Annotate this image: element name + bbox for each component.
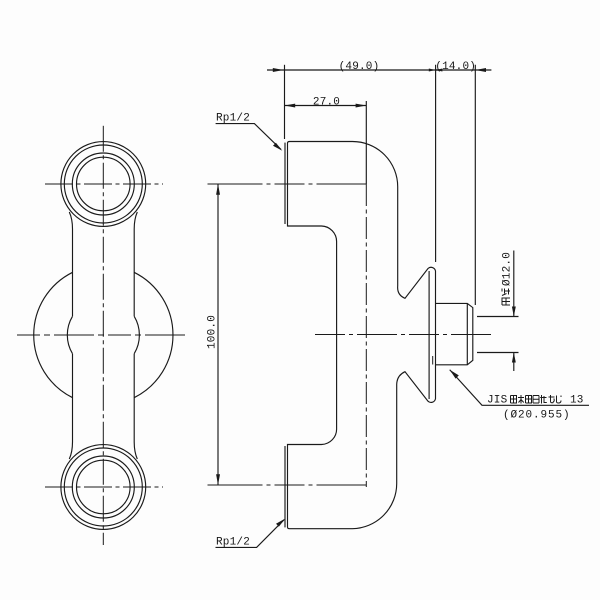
dim 100.0 line — [217, 184, 219, 485]
dim 49 left extension line — [284, 65, 286, 139]
dim 14.0 line — [436, 69, 492, 71]
dim o12 upper line — [513, 251, 515, 317]
dim 27 right extension line — [365, 101, 367, 184]
svg-text:100.0: 100.0 — [207, 315, 219, 349]
arrow o12 bottom (pointing up) — [512, 353, 516, 363]
left view top socket circle 3 — [72, 153, 134, 215]
svg-text:Rp1/2: Rp1/2 — [216, 537, 250, 549]
arrow leader rp12 bottom — [276, 519, 285, 527]
right view bottom socket axis centerline — [208, 484, 367, 486]
right view bottom socket face line — [284, 446, 286, 527]
right view top socket axis centerline — [208, 183, 367, 185]
left view bottom socket horizontal centerline — [45, 486, 163, 488]
left view tube left wall — [69, 212, 72, 459]
svg-text:27.0: 27.0 — [313, 96, 340, 108]
flange small center dash — [432, 356, 434, 365]
dim o12 lower line — [513, 353, 515, 372]
nipple chamfer line — [466, 303, 468, 364]
arrow leader jis — [450, 370, 459, 379]
leader JIS thread — [450, 370, 589, 406]
svg-text:(49.0): (49.0) — [339, 61, 380, 73]
left view middle horizontal centerline — [17, 334, 187, 336]
arrow leader rp12 top — [273, 143, 282, 151]
dim 27.0 line — [285, 105, 367, 107]
pseudo CJK glyphs: kyusui-sen toritsuke neji — [511, 395, 562, 404]
right view flange face inner line — [428, 271, 430, 399]
dim 49.0 line — [267, 69, 440, 71]
right view vertical axis centerline — [365, 184, 367, 487]
right view threaded nipple — [436, 303, 473, 364]
dim o12 upper extension line — [477, 316, 519, 318]
svg-text:Ø12.0: Ø12.0 — [502, 252, 514, 286]
left view vertical centerline — [102, 126, 104, 545]
arrow 27 right — [356, 104, 367, 108]
left view top socket circle 2 — [64, 145, 142, 223]
left view flange circle left arc — [34, 272, 73, 397]
left view flange circle right arc — [134, 272, 173, 397]
left view boss circle left arc — [67, 316, 72, 353]
arrow 49 left (outside, pointing right) — [273, 68, 284, 72]
arrow o12 top (pointing down) — [512, 307, 516, 317]
arrow 14 right (outside, pointing left) — [475, 68, 486, 72]
left view bottom socket circle 3 — [72, 456, 134, 518]
svg-text:(14.0): (14.0) — [435, 61, 476, 73]
dim o12 lower extension line — [477, 352, 519, 354]
arrow 49/14 middle pair — [429, 69, 436, 72]
right view top socket face line — [284, 143, 286, 224]
arrow 100 top — [216, 184, 220, 195]
dim 14 right extension line — [474, 65, 476, 305]
pseudo CJK glyphs: naikei (inner dia) label rotated — [502, 289, 510, 306]
left view top socket circle inner — [77, 157, 131, 211]
leader Rp1/2 top — [216, 124, 281, 150]
arrow 100 bottom — [216, 474, 220, 485]
left view boss circle right arc — [134, 316, 139, 353]
svg-text:13: 13 — [570, 395, 584, 407]
arrow 27 left — [285, 104, 296, 108]
left view bottom socket circle 2 — [64, 448, 142, 526]
left view top socket circle outer — [61, 142, 146, 227]
right view body outline — [288, 142, 436, 529]
left view tube right wall — [134, 212, 137, 459]
left view bottom socket circle inner — [77, 460, 131, 514]
right view nipple axis centerline — [315, 334, 494, 336]
leader Rp1/2 bottom — [216, 520, 285, 548]
dim 49/14 middle extension line — [435, 65, 437, 262]
svg-text:JIS: JIS — [487, 395, 508, 407]
svg-text:Rp1/2: Rp1/2 — [216, 113, 250, 125]
left view top socket horizontal centerline — [45, 183, 163, 185]
left view bottom socket circle outer — [61, 445, 146, 530]
svg-text:(Ø20.955): (Ø20.955) — [503, 410, 571, 422]
